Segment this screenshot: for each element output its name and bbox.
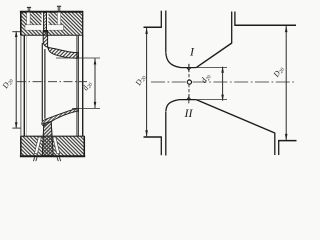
outlet flange bottom (long venturi) <box>275 133 279 155</box>
bell-mouth curve bottom <box>166 100 180 112</box>
tap channel right in lower flange (white slanted slot) <box>53 137 60 154</box>
right pipe wall top <box>234 24 296 26</box>
impulse tube left <box>27 7 31 11</box>
nozzle exit tube through lower flange (dense hatch column) <box>42 122 53 157</box>
diffuser cone bottom (long variant) <box>196 100 275 133</box>
section line through throat <box>188 64 190 101</box>
dimension d20 (right figure) <box>196 66 227 101</box>
throat center point <box>187 80 191 84</box>
throat wall bottom with section notch <box>180 99 197 101</box>
nozzle lower wall (thin crescent, hatched) <box>42 108 79 125</box>
svg-text:II: II <box>184 106 194 120</box>
outlet flange top (short venturi) <box>232 12 235 44</box>
dimension D right (right figure) <box>271 26 287 140</box>
nozzle plate and upper curved wall (hatched opposite) <box>43 31 78 59</box>
tap tube stubs below lower flange <box>33 157 60 161</box>
inlet flange outer faces <box>160 11 162 156</box>
right pipe wall bottom <box>278 140 296 142</box>
centerline of right figure <box>151 81 294 83</box>
pressure-tap channel left (white T slot) <box>25 12 43 30</box>
svg-text:D20: D20 <box>271 64 286 80</box>
left pipe wall bottom <box>144 136 162 138</box>
svg-text:D20: D20 <box>0 76 15 92</box>
svg-text:I: I <box>189 45 195 59</box>
diffuser cone top (short variant) <box>196 43 232 68</box>
impulse tube right <box>57 6 61 11</box>
lower flange block (hatched) <box>20 136 85 156</box>
bell-mouth curve top <box>166 53 181 68</box>
svg-text:D20: D20 <box>133 73 148 89</box>
inlet hole projection lines <box>42 43 45 121</box>
dimension D (left figure) <box>0 31 21 129</box>
flange face verticals <box>21 35 83 136</box>
centerline of left figure <box>17 81 87 83</box>
throat wall top with section notch <box>181 67 196 69</box>
left pipe wall top <box>144 26 162 28</box>
tap channel left in lower flange (white slanted slot) <box>34 137 41 154</box>
pressure-tap channel right (white T slot) <box>48 12 64 30</box>
upper flange block (hatched) <box>20 11 83 35</box>
nozzle tube redrawn over block <box>42 122 53 156</box>
nozzle exit end face (double line) <box>76 52 78 58</box>
inlet face plate lines <box>165 11 167 156</box>
svg-text:d20: d20 <box>199 72 213 86</box>
dimension D left (right figure) <box>133 28 148 137</box>
joint gap (white slot for nozzle plate) <box>42 13 49 31</box>
dimension d (left figure) <box>56 58 100 108</box>
